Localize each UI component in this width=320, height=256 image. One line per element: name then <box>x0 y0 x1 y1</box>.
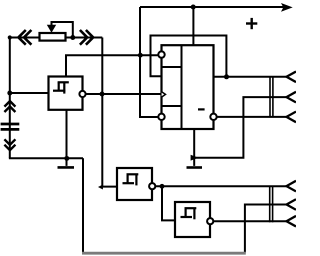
node: pot right terminal junction <box>70 35 75 40</box>
IC output bubble <box>210 114 216 120</box>
wire: bottom-left horizontal run <box>9 157 83 159</box>
arrowhead of supply rail <box>281 3 293 12</box>
one-shot U1 box <box>49 77 83 110</box>
ground under U1 <box>64 156 69 161</box>
IC internal divider (control column) <box>181 45 183 129</box>
node: left corner terminal <box>8 35 12 39</box>
potentiometer body <box>40 33 66 41</box>
wire: wiper link to right terminal <box>52 22 73 38</box>
node: junction with top rail drop <box>138 53 143 58</box>
IC control column divider 2 <box>162 105 182 107</box>
wire: top-left horizontal net <box>10 37 103 39</box>
one-shot U2 box <box>117 168 152 200</box>
contact chevrons up (above capacitor) <box>4 101 15 112</box>
wire: U1 top pin to IC pin 1 net <box>66 55 158 76</box>
contact arrow at U2 input corner <box>98 185 103 190</box>
wire: U3 output to connector pin 6 <box>213 220 286 222</box>
wire: IC ground pin <box>193 129 195 158</box>
gray common bus <box>82 252 246 255</box>
one-shot U3 box <box>175 202 210 237</box>
inverted output bubble of U2 <box>149 183 155 189</box>
top supply rail <box>140 6 285 8</box>
node: U1 output junction <box>100 92 105 97</box>
pulse symbol in U1 <box>53 82 69 93</box>
wire: to one-shot U1 input <box>10 92 49 94</box>
wire: rail drop to IC V+ pin <box>192 7 194 45</box>
wire: connector pin 5 to gray bus <box>245 205 287 253</box>
cable marker bars (bottom connector group) <box>270 186 273 223</box>
IC control column divider 1 <box>162 66 182 68</box>
node: U2 output junction <box>160 184 165 189</box>
wire: rail left leg down to IC lower bubble pin <box>140 7 158 117</box>
contact chevrons << on top-left wire <box>18 30 31 45</box>
ground under IC <box>193 158 195 166</box>
wire: left vertical drop to capacitor <box>9 38 11 159</box>
comparator IC U4 body <box>162 45 214 129</box>
minus label in IC <box>198 108 205 110</box>
node: rail junction <box>191 5 196 10</box>
wire: U2 output down to U3 input <box>162 186 175 220</box>
connector pin 2 <box>287 92 297 103</box>
pulse symbol in U3 <box>181 208 197 219</box>
wire: drop to gray bus <box>82 158 84 252</box>
cable marker bars (top connector group) <box>270 77 273 117</box>
connector pin 4 <box>287 181 297 192</box>
connector pin 1 <box>287 72 297 83</box>
wire: IC output to connector pin 1 <box>214 76 287 78</box>
connector pin 5 <box>287 199 297 210</box>
IC input bubble pin 2 <box>158 114 164 120</box>
wire: pot net down to one-shot U2 input <box>102 38 117 187</box>
connector pin 6 <box>287 216 297 227</box>
contact chevrons >> on top-left wire <box>80 30 93 45</box>
wire: IC output bubble to connector pin 3 <box>217 116 287 118</box>
node: wrap wire to output junction <box>224 74 229 79</box>
wire: U1 output to IC dynamic input <box>83 93 162 95</box>
contact chevrons down (below capacitor) <box>4 139 15 150</box>
capacitor C plates <box>1 124 20 129</box>
plus label <box>246 18 257 29</box>
wire: feedback wrap over IC (pin-to-pin) <box>151 36 227 77</box>
inverted output bubble of U1 <box>79 91 85 97</box>
node: capacitor top junction <box>7 91 12 96</box>
wire: U1 bottom pin to ground junction <box>66 110 68 159</box>
pulse symbol in U2 <box>123 174 139 185</box>
wire: U2 output to connector pin 4 <box>155 185 286 187</box>
inverted output bubble of U3 <box>207 218 213 224</box>
wire: ground net to connector pin 2 <box>194 97 286 158</box>
potentiometer wiper arrow <box>47 25 56 33</box>
IC dynamic input marker <box>162 92 166 97</box>
contact arrow at ground junction <box>191 155 199 161</box>
connector pin 3 <box>287 112 297 123</box>
IC input bubble pin 1 <box>158 51 164 57</box>
